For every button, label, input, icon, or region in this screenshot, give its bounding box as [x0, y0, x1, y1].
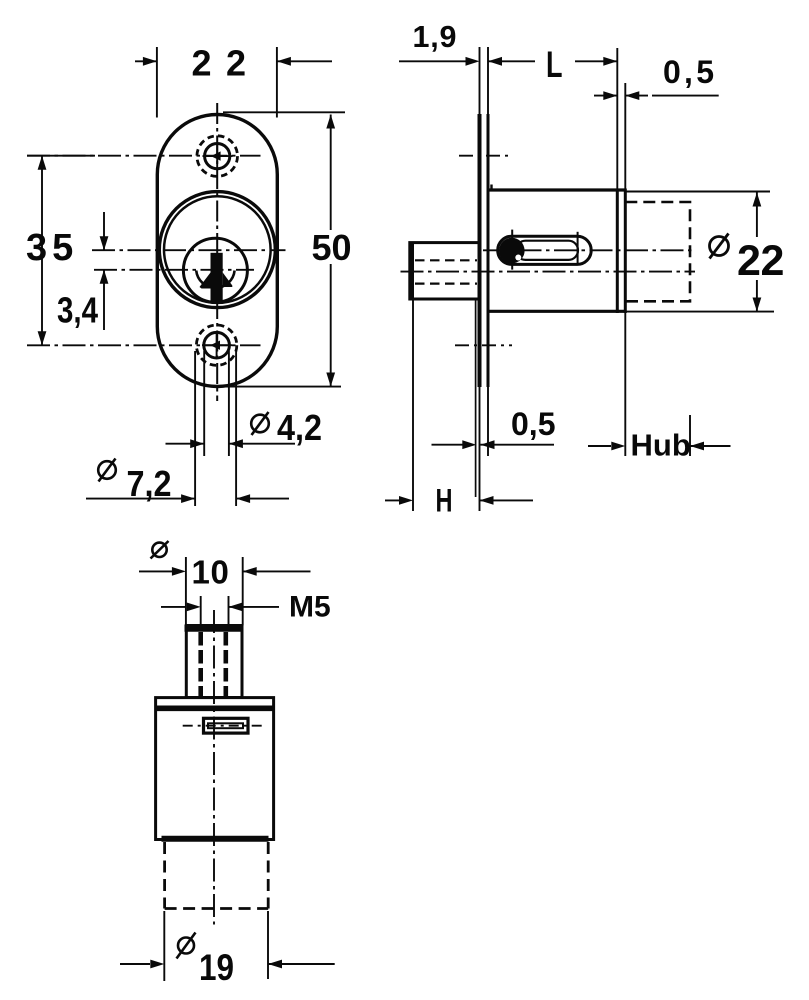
svg-text:0,5: 0,5: [663, 54, 714, 90]
extended position extension line down: [689, 415, 691, 456]
screw countersink 7.2 extension lines: [195, 351, 236, 506]
lock body bottom edge: [488, 310, 626, 313]
phi symbol of phi10: [151, 541, 169, 559]
bottom view centre line: [213, 610, 215, 925]
dimension 50 extension lines: [223, 112, 345, 386]
svg-text:35: 35: [26, 227, 78, 269]
dimension text 50: [312, 227, 352, 268]
dimension 22 extension lines: [157, 47, 277, 118]
dimension text phi 4,2: [251, 407, 322, 448]
cam slot outer outline: [498, 236, 592, 264]
dimension 10 line and arrows: [139, 567, 311, 576]
lock cylinder outer circle: [159, 192, 275, 308]
plate extension lines up: [480, 47, 489, 114]
svg-text:M5: M5: [289, 591, 331, 624]
disc extension line down: [624, 313, 626, 456]
dimension 0,5 bottom text: [511, 406, 555, 442]
hidden cylinder dashed outline: [165, 842, 269, 909]
svg-text:19: 19: [199, 947, 234, 988]
dimension H text: [436, 483, 453, 519]
threaded stub outline: [410, 243, 480, 299]
svg-text:H: H: [436, 483, 453, 519]
cylinder core circle: [183, 238, 247, 302]
lock body top edge: [488, 188, 626, 191]
body corner notch: [490, 185, 492, 191]
mounting plate back line: [487, 114, 490, 387]
slot end tick left: [511, 230, 513, 270]
dimension 4,2 line and arrows: [166, 439, 296, 448]
top screw horizontal centre line: [27, 155, 261, 157]
screw hole 4.2 extension lines: [204, 351, 229, 456]
cam slot inner outline: [516, 241, 578, 260]
core inner arc: [196, 271, 234, 288]
dimension 19 extension lines: [164, 911, 268, 981]
dimension text M5: [289, 591, 331, 624]
stub centre line: [401, 271, 696, 273]
svg-text:L: L: [546, 43, 563, 85]
disc extension lines up: [617, 48, 625, 189]
cylinder axis centre line: [483, 249, 695, 251]
bottom screw hole inner circle: [204, 332, 230, 358]
dimension 7,2 line and arrows: [86, 494, 289, 503]
top screw hole inner circle: [205, 144, 230, 169]
svg-text:Hub: Hub: [631, 428, 691, 463]
dimension text phi 19: [177, 933, 235, 989]
dimension 35 line and arrows: [38, 156, 47, 346]
M5 extension ticks: [201, 596, 229, 626]
dimension phi22 line and arrows: [753, 193, 762, 312]
dimension 3,4 line and arrows: [100, 212, 109, 330]
svg-text:3,4: 3,4: [57, 290, 98, 331]
svg-text:2: 2: [192, 43, 212, 84]
extended position dashed outline: [625, 202, 690, 301]
svg-text:1,9: 1,9: [413, 20, 457, 54]
top screw cross mark: [203, 145, 233, 168]
dimension 50 line and arrows: [326, 115, 335, 387]
dimension 10 extension lines: [186, 557, 243, 625]
dimension text phi 7,2: [98, 459, 171, 505]
dimension 0,5 top text: [663, 54, 714, 90]
dimension 19 line and arrows: [120, 960, 335, 969]
stub face extension line for H: [412, 299, 414, 511]
svg-text:1: 1: [192, 554, 210, 591]
stub thread dashed lines: [415, 260, 477, 283]
dimension L text: [546, 43, 563, 85]
svg-text:50: 50: [312, 227, 352, 268]
dimension text phi 22: [710, 234, 785, 286]
side view bottom screw centre line: [455, 344, 512, 346]
svg-text:0,5: 0,5: [511, 406, 555, 442]
dimension L line and arrows: [575, 57, 617, 66]
cylinder horizontal centre line: [92, 249, 286, 251]
lock cylinder inner ring: [164, 196, 271, 303]
bottom screw horizontal centre line: [27, 344, 261, 346]
dimension text 2 2: [192, 43, 247, 84]
lock body bottom extension to phi22: [626, 311, 775, 313]
key slot centre line: [183, 725, 264, 727]
plate lip line: [475, 299, 477, 497]
mounting plate front line: [478, 114, 482, 387]
bottom screw hole countersink (dashed circle): [196, 325, 236, 365]
plate extension lines down: [480, 387, 489, 511]
bottom view body outline: [156, 698, 274, 840]
lock body top extension to phi22: [626, 191, 771, 193]
dimension text 35: [26, 227, 78, 269]
svg-text:4,2: 4,2: [277, 407, 322, 448]
stub thread dashed lines (bottom view): [201, 632, 226, 696]
dimension 0,5 top line and arrows: [594, 91, 719, 100]
body flange lines: [156, 705, 274, 711]
body bottom thick edge: [162, 836, 269, 842]
bottom view threaded stub outline: [185, 626, 244, 698]
M5 dimension line and arrows: [161, 603, 279, 612]
dimension text 3,4: [57, 290, 98, 331]
core horizontal centre line: [94, 269, 254, 271]
dimension 1,9 text: [413, 20, 457, 54]
dimension 1,9 line and arrows: [399, 57, 535, 66]
top screw hole countersink (dashed circle): [197, 136, 238, 177]
svg-text:2: 2: [226, 43, 246, 84]
front disc right line: [624, 189, 627, 314]
bottom screw cross mark: [202, 334, 232, 357]
dimension H line and arrows: [385, 496, 533, 505]
keyhole slot (filled): [200, 253, 233, 304]
dimension Hub text: [631, 428, 691, 463]
dimension Hub line and arrows: [588, 442, 731, 451]
svg-text:0: 0: [211, 554, 229, 591]
svg-text:7,2: 7,2: [127, 463, 172, 504]
svg-text:2: 2: [737, 237, 761, 285]
side view top screw centre line: [459, 155, 513, 157]
key slot outer rectangle: [204, 718, 249, 733]
dimension 22 line and arrows: [135, 57, 332, 66]
svg-text:2: 2: [761, 237, 785, 285]
key slot inner rectangle: [208, 723, 243, 728]
dimension text 10: [192, 554, 229, 591]
cam pin (filled): [499, 238, 525, 264]
front disc left line: [616, 189, 619, 314]
dimension 35 extension: top tick: [27, 155, 95, 157]
dimension 0,5 bottom line and arrows: [432, 440, 555, 449]
oval face plate outline: [157, 115, 277, 387]
slot end tick right: [577, 232, 579, 265]
vertical center line of front view: [216, 103, 218, 401]
